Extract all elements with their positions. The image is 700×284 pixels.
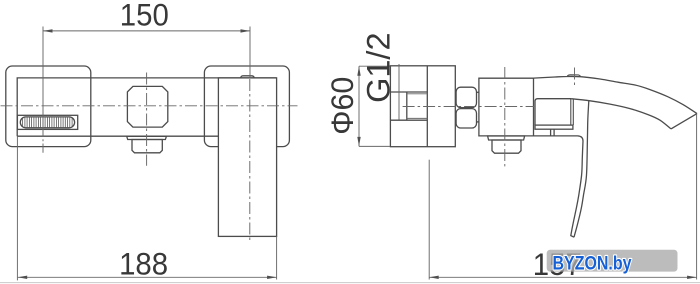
svg-text:150: 150 bbox=[120, 0, 169, 33]
svg-text:BYZON.by: BYZON.by bbox=[553, 253, 632, 274]
svg-text:G1/2: G1/2 bbox=[361, 32, 397, 102]
svg-text:188: 188 bbox=[119, 246, 168, 282]
svg-text:Φ60: Φ60 bbox=[324, 77, 360, 135]
